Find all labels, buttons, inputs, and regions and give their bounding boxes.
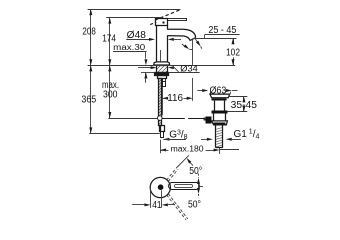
- drain pop-up ball housing: [206, 117, 212, 124]
- dimension line 174: [108, 18, 111, 66]
- faucet cartridge cap: [156, 19, 168, 26]
- dimension 174 extension line: [106, 17, 163, 19]
- lever handle (horizontal position): [168, 19, 187, 21]
- drain neck: [215, 101, 225, 111]
- G3/8 hose connector tube: [161, 132, 164, 138]
- drain locknut body: [212, 113, 228, 125]
- svg-text:116: 116: [167, 93, 183, 104]
- svg-text:Ø34: Ø34: [180, 64, 197, 74]
- label G1 1/4 with thread arrows: [201, 138, 241, 141]
- svg-text:35-45: 35-45: [231, 100, 258, 111]
- svg-text:300: 300: [103, 90, 118, 101]
- label G3/8 with leader: [163, 138, 186, 141]
- svg-text:50°: 50°: [189, 166, 202, 177]
- drain tailpipe with G1 1/4 thread: [216, 125, 223, 148]
- water stream arrow b: [182, 44, 193, 50]
- dimension Ø48 (body diameter): [126, 38, 181, 41]
- pop-up rod joint: [158, 116, 163, 121]
- dimension 116: [162, 97, 193, 100]
- flexible supply hoses bundle: [159, 79, 162, 126]
- G3/8 hose connector nut: [160, 125, 165, 131]
- svg-text:365: 365: [81, 95, 96, 106]
- drain plug lip (dark band): [212, 99, 227, 101]
- top view: lever (plan): [169, 183, 200, 190]
- dimension 25 - 45 (spout reach range): [193, 35, 240, 39]
- dimension line 208: [89, 9, 92, 65]
- spout: [167, 29, 195, 40]
- dimension max.30 (deck thickness): [113, 51, 147, 83]
- dimension Ø34 (shank): [138, 66, 179, 72]
- mounting nut: [158, 76, 167, 79]
- drain locknut top (dark band): [212, 111, 228, 114]
- tailpipe thread hatch: [216, 128, 222, 147]
- horizontal pop-up linkage rod: [162, 118, 206, 120]
- svg-text:50°: 50°: [188, 199, 201, 210]
- upper 50 deg leader arrow: [187, 158, 193, 166]
- top view: cartridge axis dot: [158, 184, 164, 190]
- horseshoe washer: [155, 73, 169, 76]
- dimension 41: [132, 188, 175, 208]
- pop-up pull rod: [161, 87, 163, 117]
- lever pivot pin: [163, 22, 165, 24]
- svg-text:41: 41: [152, 200, 162, 211]
- drain flange (top): [210, 94, 230, 98]
- ball housing stem: [204, 118, 206, 121]
- top view: lever swung down 50 deg (dashed): [167, 194, 188, 220]
- water stream arrow a: [195, 38, 202, 49]
- shank tube end: [162, 79, 165, 87]
- mounting deck bottom line: [141, 72, 200, 74]
- dimension line 365: [89, 65, 160, 133]
- threaded shank through deck (hatched): [157, 66, 168, 73]
- svg-text:Ø63: Ø63: [210, 85, 227, 96]
- pop-up rod inside body: [160, 50, 162, 62]
- dimension 102 (spout height): [232, 38, 235, 65]
- svg-text:102: 102: [226, 47, 240, 58]
- dimension 35-45 (basin thickness at drain): [227, 96, 247, 112]
- drain locknut bottom (dark band): [214, 123, 226, 125]
- dimension Ø63 (drain flange): [197, 89, 237, 93]
- svg-text:Ø48: Ø48: [127, 30, 147, 41]
- lever handle raised position (dashed): [150, 9, 181, 24]
- svg-text:208: 208: [82, 27, 96, 38]
- dimension 208 extension line (top): [88, 9, 181, 11]
- top view: lever swung up 50 deg (dashed): [167, 155, 189, 181]
- svg-text:max.180: max.180: [171, 145, 205, 154]
- top view: lever end tick: [199, 186, 203, 188]
- svg-text:25 - 45: 25 - 45: [208, 25, 236, 36]
- faucet body: [157, 26, 168, 62]
- spout tip extension line: [192, 40, 194, 101]
- dimension max.180 (center distance): [160, 140, 239, 154]
- mounting deck top line: [88, 65, 236, 67]
- top view: faucet body circle: [150, 177, 170, 197]
- svg-text:max.30: max.30: [113, 43, 146, 52]
- faucet base plate: [154, 62, 170, 65]
- angle dimension line through lever: [197, 174, 200, 198]
- dimension line max.300: [108, 65, 157, 118]
